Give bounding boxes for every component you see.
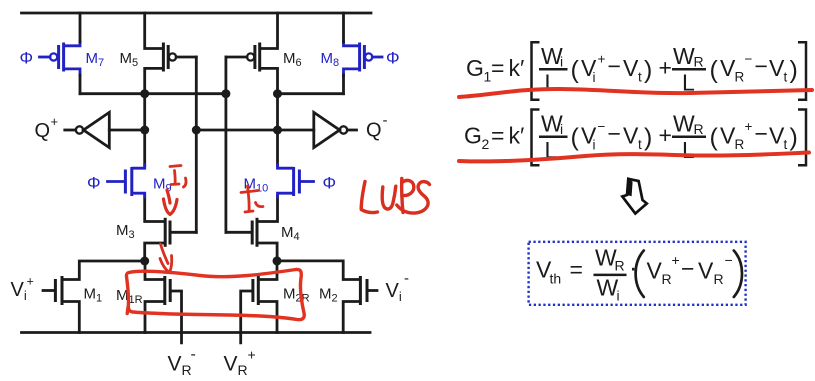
svg-text:i: i: [593, 138, 596, 153]
svg-text:−: −: [608, 121, 621, 147]
transistor M5: [145, 13, 197, 94]
svg-text:t: t: [638, 70, 642, 85]
junction node A top: [140, 89, 149, 98]
svg-text:L: L: [682, 137, 695, 163]
svg-text:R: R: [662, 271, 672, 287]
svg-text:L: L: [545, 70, 558, 96]
svg-text:W: W: [673, 43, 695, 69]
svg-text:k′: k′: [509, 123, 525, 149]
wire: node B to M4 drain: [258, 196, 277, 222]
junction left tail node: [140, 257, 149, 266]
top supply rail: [22, 12, 372, 15]
svg-text:i: i: [593, 70, 596, 85]
svg-text:): ): [644, 56, 652, 84]
svg-text:=: =: [491, 123, 504, 149]
svg-text:−: −: [681, 256, 694, 282]
svg-text:th: th: [550, 271, 562, 287]
svg-text:+: +: [51, 114, 59, 129]
junction node B row2: [273, 126, 282, 135]
svg-text:Φ: Φ: [20, 49, 34, 68]
block arrow down: [622, 179, 647, 214]
red underline 2: [459, 153, 809, 162]
inverter (Q+): [65, 112, 145, 147]
svg-text:-: -: [383, 112, 388, 129]
transistor M7: [40, 41, 81, 76]
transistor M2R: [241, 261, 277, 343]
bottom rail: [22, 331, 371, 334]
svg-text:V: V: [647, 258, 663, 284]
svg-text:t: t: [784, 137, 788, 152]
transistor M6: [226, 13, 278, 94]
svg-text:-: -: [191, 346, 196, 363]
transistor M4: [226, 219, 257, 245]
svg-text:R: R: [714, 271, 724, 287]
junction node B top: [273, 89, 282, 98]
svg-text:R: R: [615, 258, 625, 274]
wire: M8 to node B row: [342, 75, 345, 94]
svg-text:−: −: [755, 53, 768, 79]
junction M6 gate tap: [221, 89, 230, 98]
svg-text:=: =: [570, 257, 583, 283]
svg-text:−: −: [755, 121, 768, 147]
svg-text:(: (: [571, 124, 580, 152]
transistor M1: [43, 261, 145, 333]
wire: M7 to node A row: [79, 75, 82, 94]
svg-text:−: −: [725, 252, 733, 268]
equation Vth: [536, 245, 742, 304]
wire: M7 to rail: [79, 13, 82, 42]
svg-text:Q: Q: [35, 120, 51, 142]
wire: node A to M3 drain: [145, 196, 164, 222]
transistor M9: [108, 165, 145, 197]
svg-text:R: R: [694, 121, 704, 137]
wire: node B vertical: [276, 94, 279, 166]
red underline 1: [459, 89, 812, 97]
svg-text:W: W: [597, 275, 619, 301]
svg-text:+: +: [27, 275, 34, 289]
transistor M2: [277, 261, 377, 333]
red mark IL near M10: [241, 186, 263, 212]
wire: right output node row: [278, 92, 344, 95]
svg-text:W: W: [673, 111, 695, 137]
svg-text:G: G: [464, 123, 482, 149]
transistor M8: [344, 41, 383, 76]
wire: left output node row: [80, 92, 226, 95]
svg-text:−: −: [598, 119, 606, 134]
svg-text:V: V: [623, 55, 639, 81]
svg-text:G: G: [466, 55, 484, 81]
wire: cross-couple line (M5 gate to M3 gate): [195, 57, 198, 232]
transistor M3: [165, 219, 196, 245]
svg-text:+: +: [672, 252, 680, 268]
svg-text:2: 2: [482, 136, 490, 152]
svg-text:(: (: [571, 56, 580, 84]
equation G1: [466, 42, 806, 100]
svg-text:i: i: [560, 54, 563, 70]
svg-text:+: +: [598, 52, 606, 67]
svg-text:Φ: Φ: [323, 174, 337, 193]
svg-text:k′: k′: [509, 55, 525, 81]
wire: M8 to rail: [342, 13, 345, 42]
wire: M3 source to tail node: [145, 243, 164, 261]
junction right tail node: [273, 256, 282, 265]
svg-text:V: V: [623, 123, 639, 149]
equation G2: [464, 110, 806, 166]
transistor M1R: [145, 261, 182, 343]
svg-text:t: t: [638, 137, 642, 152]
red mark Ibar near M9: [170, 166, 186, 188]
svg-text:+: +: [745, 119, 753, 134]
inverter (Q-): [314, 112, 357, 147]
svg-text:): ): [790, 56, 798, 84]
svg-text:): ): [644, 124, 652, 152]
svg-text:Φ: Φ: [386, 49, 400, 68]
transistor M10: [278, 165, 314, 197]
red arrow into box: [160, 244, 172, 273]
junction node A row2: [140, 126, 149, 135]
svg-text:+: +: [659, 55, 672, 81]
svg-text:i: i: [560, 121, 563, 137]
svg-text:−: −: [745, 52, 753, 67]
svg-text:): ): [790, 124, 798, 152]
wire: row2 right (to inverter): [196, 129, 313, 132]
svg-text:(: (: [710, 124, 719, 152]
svg-text:(: (: [710, 56, 719, 84]
svg-text:t: t: [784, 70, 788, 85]
svg-text:+: +: [248, 347, 256, 363]
wire: cross-couple line (M6 gate to M4 gate): [224, 57, 227, 232]
svg-text:Φ: Φ: [87, 174, 101, 193]
svg-text:-: -: [404, 270, 409, 287]
svg-text:Q: Q: [366, 120, 382, 142]
svg-text:V: V: [698, 258, 714, 284]
svg-text:i: i: [617, 288, 620, 304]
svg-text:−: −: [608, 53, 621, 79]
handwritten LUPS: [361, 179, 429, 214]
svg-text:+: +: [659, 122, 672, 148]
wire: node A vertical: [143, 94, 146, 166]
svg-text:=: =: [491, 55, 504, 81]
junction M5 gate tap: [192, 126, 201, 135]
red arrow below M9: [164, 190, 178, 215]
dotted result box: [529, 242, 746, 305]
wire: M4 source to tail node: [258, 243, 277, 261]
svg-text:R: R: [694, 54, 704, 70]
red loop around M1R M2R: [126, 269, 304, 319]
svg-text:R: R: [735, 70, 745, 85]
svg-text:R: R: [735, 137, 745, 152]
